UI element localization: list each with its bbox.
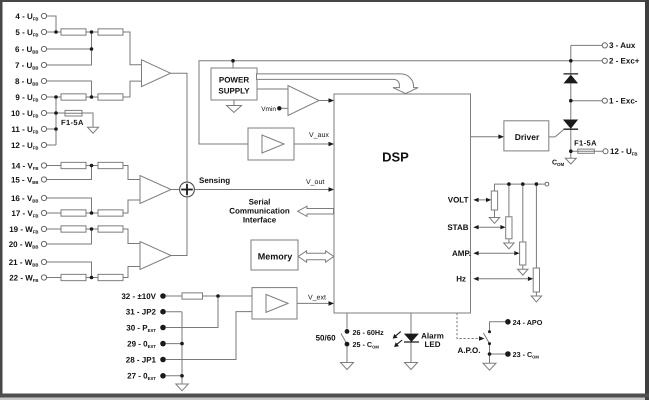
- svg-text:POWER: POWER: [219, 75, 249, 84]
- svg-text:F1-5A: F1-5A: [574, 138, 597, 147]
- svg-text:Driver: Driver: [515, 132, 540, 142]
- svg-text:Interface: Interface: [243, 216, 277, 225]
- svg-text:Vmin: Vmin: [261, 106, 276, 113]
- svg-text:STAB: STAB: [447, 223, 468, 232]
- svg-text:V_out: V_out: [306, 179, 324, 186]
- svg-text:V_ext: V_ext: [308, 295, 326, 302]
- svg-text:2 - Exc+: 2 - Exc+: [609, 57, 640, 66]
- svg-text:LED: LED: [425, 340, 441, 349]
- svg-text:V_aux: V_aux: [309, 132, 329, 139]
- svg-text:AMP.: AMP.: [452, 249, 471, 258]
- svg-text:26 - 60Hz: 26 - 60Hz: [353, 328, 385, 337]
- svg-text:DSP: DSP: [382, 150, 409, 165]
- svg-text:1 - Exc-: 1 - Exc-: [609, 97, 638, 106]
- svg-text:24 - APO: 24 - APO: [513, 318, 543, 327]
- svg-text:Memory: Memory: [258, 251, 293, 261]
- svg-text:28 - JP1: 28 - JP1: [126, 355, 157, 364]
- svg-text:Hz: Hz: [456, 274, 466, 283]
- svg-text:A.P.O.: A.P.O.: [458, 346, 481, 355]
- svg-text:32 - ±10V: 32 - ±10V: [121, 292, 156, 301]
- svg-text:50/60: 50/60: [316, 334, 337, 343]
- svg-text:3 - Aux: 3 - Aux: [609, 41, 636, 50]
- svg-text:F1-5A: F1-5A: [61, 118, 84, 127]
- svg-text:SUPPLY: SUPPLY: [218, 86, 250, 95]
- svg-text:Communication: Communication: [229, 207, 290, 216]
- svg-text:VOLT: VOLT: [448, 196, 469, 205]
- svg-text:Serial: Serial: [249, 198, 271, 207]
- svg-text:Sensing: Sensing: [199, 176, 230, 185]
- svg-text:31 - JP2: 31 - JP2: [126, 308, 157, 317]
